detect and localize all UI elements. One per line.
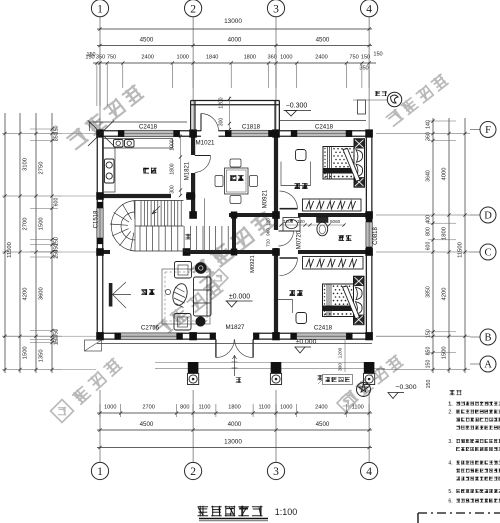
svg-text:4500: 4500	[140, 421, 154, 428]
wall grid-3 upper	[274, 136, 278, 230]
svg-text:C2756: C2756	[141, 325, 160, 332]
svg-text:B: B	[484, 333, 491, 344]
svg-text:3600: 3600	[39, 287, 45, 300]
row C wall left stub	[97, 250, 110, 254]
wall B row: mid-right segment	[253, 332, 297, 334]
watermark diamond logo	[337, 394, 355, 412]
wardrobe bedroom1	[303, 199, 362, 211]
svg-text:2400: 2400	[141, 55, 153, 61]
svg-text:4500: 4500	[316, 421, 330, 428]
wall grid-3 lower	[274, 254, 278, 339]
svg-text:300: 300	[219, 118, 225, 127]
svg-text:M0921: M0921	[263, 189, 269, 208]
svg-text:4500: 4500	[140, 37, 154, 44]
svg-text:4200: 4200	[23, 288, 29, 301]
chaise oval	[171, 282, 190, 307]
svg-text:3850: 3850	[426, 286, 432, 298]
svg-text:2700: 2700	[23, 218, 29, 231]
svg-text:4.: 4.	[448, 461, 452, 467]
terrace edge lines	[97, 343, 372, 345]
column grid-4/B	[365, 332, 373, 340]
kitchen counter left	[104, 148, 116, 192]
rain symbol circle	[387, 92, 401, 106]
kitchen south wall	[97, 194, 171, 198]
svg-text:6.: 6.	[448, 499, 452, 505]
jamb C0818 bottom	[366, 247, 372, 253]
svg-text:±0.000: ±0.000	[296, 339, 317, 346]
svg-text:600: 600	[426, 242, 432, 251]
window C2418 bedroom1 north	[297, 130, 346, 136]
svg-text:2.: 2.	[448, 410, 452, 416]
svg-text:850: 850	[426, 347, 432, 356]
living rug dashed	[162, 269, 210, 324]
svg-text:1800: 1800	[244, 55, 256, 61]
window jamb block F row	[346, 130, 352, 137]
svg-text:C: C	[484, 248, 491, 259]
window jamb block B row	[290, 333, 296, 340]
svg-text:M0720: M0720	[297, 230, 303, 249]
bath tiny dims	[280, 224, 346, 226]
stair landing edge line	[204, 198, 206, 250]
wall grid-1: upper segment	[96, 131, 98, 208]
svg-text:1200: 1200	[219, 97, 225, 108]
column grid-2/B	[189, 332, 197, 340]
svg-text:1500: 1500	[442, 346, 448, 359]
bed B2	[323, 284, 356, 317]
svg-text:−0.300: −0.300	[396, 384, 417, 391]
door M1021	[200, 114, 202, 132]
svg-text:4500: 4500	[316, 37, 330, 44]
svg-text:4000: 4000	[228, 37, 242, 44]
svg-text:1800: 1800	[442, 227, 448, 240]
column grid-3/C	[272, 248, 280, 256]
svg-text:2400: 2400	[315, 55, 327, 61]
room label dining	[230, 175, 236, 181]
row D wall right part	[298, 213, 372, 217]
window jamb block F row	[291, 130, 297, 137]
wall grid-2 lower	[191, 173, 195, 217]
column grid-3/B	[272, 332, 280, 340]
kitchen stove 2 burners	[105, 159, 115, 183]
jamb C0818 top	[366, 216, 372, 222]
dark circle bottom	[196, 317, 206, 327]
svg-text:1500: 1500	[39, 217, 45, 230]
svg-text:140: 140	[426, 120, 432, 129]
watermark diamond logo	[210, 269, 228, 287]
svg-text:1100: 1100	[258, 405, 270, 411]
plant dark circle	[195, 262, 206, 273]
svg-text:1840: 1840	[206, 55, 218, 61]
svg-text:4: 4	[366, 4, 372, 16]
window jamb block B row	[346, 333, 352, 340]
dash-dot border corner bottom right	[418, 512, 500, 514]
svg-text:M0921: M0921	[250, 255, 256, 273]
room label bedroom2	[289, 290, 295, 296]
watermark 图纸之家	[65, 83, 144, 150]
column grid-2/K	[186, 192, 195, 200]
svg-text:13000: 13000	[224, 18, 242, 25]
TV pointer arrow	[113, 282, 132, 308]
svg-text:2700: 2700	[142, 405, 154, 411]
armchair top	[175, 262, 192, 279]
kitchen sink double	[114, 140, 124, 148]
row C wall right	[298, 250, 372, 254]
room label living	[141, 289, 147, 295]
column grid-4/C	[365, 248, 373, 256]
svg-text:720: 720	[266, 239, 271, 247]
wall grid-3 mid stub	[274, 248, 278, 254]
svg-text:C2418: C2418	[314, 325, 333, 332]
svg-text:750: 750	[349, 55, 358, 61]
row C wall centre	[183, 250, 279, 254]
svg-text:150: 150	[426, 360, 432, 369]
bedroom2 desk lines	[278, 300, 293, 314]
svg-text:960: 960	[266, 228, 271, 236]
window jamb block B row	[177, 333, 183, 340]
wall F row: dining-bed1 segment	[269, 130, 298, 132]
door M1827 double entrance	[215, 339, 217, 357]
jamb C1518 top	[97, 202, 103, 208]
column grid-3/D	[272, 211, 280, 219]
window jamb block B row	[115, 333, 121, 340]
wall B row: mid-left segment	[177, 332, 216, 334]
svg-text:1800: 1800	[228, 405, 240, 411]
bedroom1 stool	[296, 150, 307, 161]
svg-text:350: 350	[96, 55, 105, 61]
column bath-west/C	[231, 249, 238, 256]
svg-text:150: 150	[373, 52, 382, 58]
svg-text:1000: 1000	[280, 55, 292, 61]
kitchen counter top	[104, 139, 173, 149]
interior small dims	[180, 134, 182, 196]
column grid-4/D	[365, 211, 373, 219]
room label kitchen	[143, 168, 149, 174]
top grid circles	[99, 17, 101, 131]
notes block 备注	[449, 390, 454, 395]
TV on west wall	[109, 283, 113, 307]
left dimension block	[2, 113, 96, 373]
window C2418 bedroom2 south	[297, 333, 347, 340]
svg-text:M1021: M1021	[196, 140, 215, 147]
porch column base circle grid-3	[270, 374, 281, 385]
left step box with diagonal	[85, 340, 102, 351]
svg-text:250: 250	[54, 250, 60, 259]
bedroom2 stool	[296, 313, 307, 324]
window C0818 bath east	[366, 222, 372, 247]
room label bedroom1	[294, 183, 300, 189]
door M0921 bedroom2	[280, 257, 298, 259]
bottom dimension block	[97, 390, 372, 463]
porch column grid-4/A	[364, 362, 375, 373]
column grid-1/F	[96, 129, 104, 137]
window C2418 kitchen north	[124, 130, 174, 136]
svg-text:1350: 1350	[39, 349, 45, 362]
svg-text:4: 4	[366, 466, 372, 478]
svg-text:360: 360	[268, 55, 277, 61]
window jamb block B row	[210, 333, 216, 340]
bedroom2 wardrobe	[303, 257, 364, 270]
wall F row: porch-dining segment	[219, 130, 232, 132]
svg-text:3.: 3.	[448, 439, 452, 445]
svg-text:1200: 1200	[283, 219, 294, 224]
eave line above bedroom1	[279, 120, 366, 122]
wall grid-4: lower segment	[365, 247, 367, 339]
window jamb block F row	[118, 130, 124, 137]
column grid-3/F	[272, 129, 280, 137]
door M1821 kitchen-dining	[195, 155, 211, 157]
svg-text:1: 1	[97, 4, 103, 16]
svg-text:1800: 1800	[170, 163, 176, 174]
window C2756 living south	[121, 333, 177, 340]
svg-text:11500: 11500	[7, 242, 13, 258]
svg-text:−0.300: −0.300	[286, 103, 308, 110]
wall grid-2 upper	[191, 136, 195, 155]
wall grid-1: lower segment	[96, 238, 98, 339]
svg-text:1000: 1000	[170, 139, 176, 150]
svg-text:F: F	[485, 125, 491, 136]
svg-text:4000: 4000	[228, 421, 242, 428]
svg-text:C0818: C0818	[373, 227, 379, 245]
svg-text:800: 800	[180, 405, 189, 411]
svg-text:1:100: 1:100	[275, 507, 298, 517]
porch east wall	[274, 101, 276, 132]
porch west wall	[190, 101, 192, 132]
svg-text:300: 300	[338, 363, 344, 371]
svg-text:C1518: C1518	[94, 210, 100, 228]
outdoor steps label	[323, 375, 353, 385]
wall F row: right segment	[346, 130, 372, 132]
window jamb block F row	[269, 130, 275, 137]
wall B row: right segment	[346, 332, 372, 334]
svg-text:360: 360	[426, 132, 432, 141]
bedroom1 desk outline	[281, 162, 311, 186]
svg-text:3: 3	[273, 4, 279, 16]
porch column base circle grid-4	[364, 374, 375, 385]
svg-text:350: 350	[54, 329, 60, 338]
svg-text:120: 120	[297, 219, 305, 224]
bath west wall	[232, 213, 236, 254]
porch column grid-3/A	[271, 362, 282, 373]
column grid-2/D	[189, 211, 197, 219]
svg-text:2: 2	[190, 4, 196, 16]
armchair bottom	[174, 314, 191, 331]
svg-text:11500: 11500	[458, 242, 464, 258]
north/compass circle bottom	[357, 383, 371, 397]
svg-text:150: 150	[426, 380, 432, 389]
title 一层平面图 1:100	[198, 506, 209, 517]
svg-text:150: 150	[426, 329, 432, 338]
right grid letter circles	[470, 129, 481, 131]
stair up arrow	[152, 206, 160, 214]
right dimension block	[376, 118, 470, 388]
porch column grid-2/A	[188, 362, 199, 373]
watermark diamond logo	[51, 400, 74, 423]
jamb C1518 bottom	[97, 238, 103, 244]
porch column line	[155, 361, 372, 363]
svg-text:150: 150	[87, 52, 96, 58]
porch column base circle grid-2	[188, 374, 199, 385]
svg-text:750: 750	[107, 55, 116, 61]
wall F row: left segment	[97, 130, 124, 132]
column grid-4/F	[365, 129, 373, 137]
svg-text:C1818: C1818	[242, 124, 261, 131]
svg-text:1200: 1200	[338, 347, 344, 358]
svg-text:120: 120	[266, 218, 271, 226]
toilet	[317, 217, 329, 223]
wall B row: left segment	[97, 332, 120, 334]
svg-text:D: D	[484, 211, 492, 222]
svg-text:M1827: M1827	[226, 324, 245, 331]
svg-text:3100: 3100	[23, 158, 29, 171]
wall grid-4: upper segment	[365, 131, 367, 222]
column grid-1/K	[96, 192, 104, 200]
svg-text:1.: 1.	[448, 402, 452, 408]
svg-text:400: 400	[426, 215, 432, 224]
eave line above kitchen	[90, 121, 188, 123]
window C1818 dining north	[231, 130, 268, 136]
steps at main door	[234, 356, 236, 377]
svg-text:1100: 1100	[198, 405, 210, 411]
svg-text:±0.000: ±0.000	[229, 294, 250, 301]
svg-text:1500: 1500	[23, 346, 29, 359]
column grid-2/F	[189, 129, 197, 137]
watermark 图纸之家	[385, 73, 449, 127]
window C1518 stair west	[97, 208, 103, 238]
svg-text:C2418: C2418	[315, 124, 334, 131]
svg-text:1100: 1100	[352, 405, 364, 411]
bed B1	[323, 147, 356, 180]
room label bath	[339, 235, 345, 241]
svg-text:C2418: C2418	[139, 124, 158, 131]
svg-text:A: A	[484, 360, 492, 371]
svg-text:1000: 1000	[280, 405, 292, 411]
top dimension block	[85, 18, 376, 106]
wash basin	[283, 218, 300, 232]
svg-text:1000: 1000	[104, 405, 116, 411]
svg-text:5.: 5.	[448, 489, 452, 495]
svg-text:2750: 2750	[39, 162, 45, 175]
watermark 图纸之家	[189, 210, 276, 283]
window jamb block F row	[225, 130, 231, 137]
svg-text:150: 150	[361, 55, 370, 61]
door M0921 bedroom1	[280, 208, 298, 210]
window jamb block F row	[174, 130, 180, 137]
staircase	[110, 201, 228, 252]
corner X marker grid-1/F	[88, 121, 114, 147]
window jamb block B row	[253, 333, 259, 340]
column grid-1/C	[96, 248, 104, 256]
kitchen south wall stub	[186, 194, 195, 198]
svg-text:3640: 3640	[426, 170, 432, 182]
svg-text:150: 150	[54, 336, 60, 345]
svg-text:2: 2	[190, 466, 196, 478]
column grid-1/B	[96, 332, 104, 340]
svg-text:350: 350	[54, 132, 60, 141]
svg-text:5060: 5060	[330, 219, 341, 224]
dining chairs	[230, 159, 241, 167]
svg-text:3: 3	[273, 466, 279, 478]
small circle left	[165, 289, 170, 294]
svg-text:1: 1	[97, 466, 103, 478]
svg-text:1000: 1000	[176, 55, 188, 61]
watermark 图纸之家	[152, 279, 224, 340]
svg-text:4200: 4200	[442, 288, 448, 301]
svg-text:13000: 13000	[224, 439, 242, 446]
svg-text:M1821: M1821	[185, 161, 191, 180]
watermark 图纸之家	[340, 354, 404, 408]
svg-text:2400: 2400	[315, 405, 327, 411]
porch north wall	[191, 99, 280, 101]
svg-text:4000: 4000	[442, 168, 448, 181]
rain pipe top right	[358, 100, 366, 114]
wall F row: kitchen-porch segment	[172, 130, 201, 132]
row D wall left part	[229, 213, 279, 217]
svg-text:350: 350	[359, 66, 368, 72]
up labels on porch	[236, 377, 242, 383]
雨水 label	[375, 91, 380, 96]
column bath-west/D	[231, 212, 238, 219]
svg-text:800: 800	[426, 227, 432, 236]
svg-text:600: 600	[54, 198, 60, 207]
door M0720 bath	[279, 230, 294, 232]
dining table	[225, 168, 249, 194]
column stair/C	[183, 248, 191, 256]
svg-text:300: 300	[170, 185, 176, 194]
sofa right	[194, 277, 212, 316]
bottom grid circles	[91, 462, 108, 479]
